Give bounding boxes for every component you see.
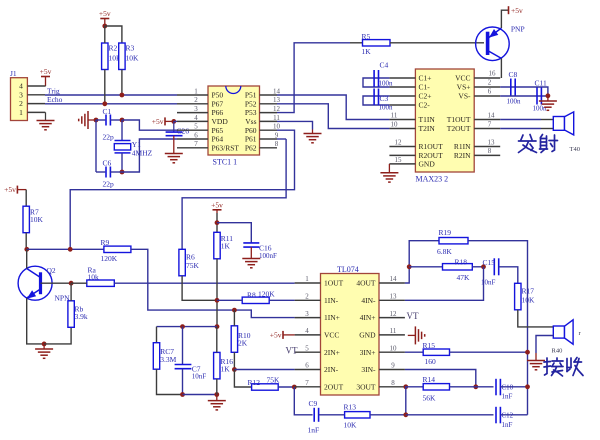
capacitor C3 (374, 89, 393, 112)
svg-text:P66: P66 (212, 108, 224, 117)
wire (278, 386, 294, 388)
resistor R8 (242, 289, 275, 303)
junction R15-vert (525, 350, 530, 355)
junction Q2-gnd (42, 342, 47, 347)
wire (25, 190, 27, 207)
wire (70, 130, 294, 249)
svg-text:47K: 47K (457, 273, 471, 282)
svg-text:12: 12 (390, 310, 398, 318)
svg-text:R17: R17 (522, 287, 535, 296)
svg-text:P60: P60 (245, 126, 257, 135)
capacitor C4 (374, 61, 393, 88)
svg-text:P67: P67 (212, 99, 224, 108)
svg-text:56K: 56K (423, 394, 437, 403)
wire (182, 369, 184, 395)
junction R3-Trig (120, 93, 125, 98)
wire (71, 282, 87, 284)
ground C16 (242, 247, 260, 268)
svg-text:10nF: 10nF (481, 279, 496, 287)
svg-text:R1OUT: R1OUT (419, 142, 444, 151)
svg-text:6: 6 (194, 131, 198, 139)
svg-text:C1+: C1+ (419, 74, 432, 83)
capacitor C15 (481, 258, 499, 287)
power +5v J1 (40, 67, 52, 86)
wire (499, 267, 518, 284)
wire (157, 369, 183, 394)
svg-text:P53: P53 (245, 108, 257, 117)
svg-text:TL074: TL074 (337, 265, 359, 274)
svg-text:P65: P65 (212, 126, 224, 135)
svg-text:10: 10 (390, 344, 398, 352)
wire (234, 370, 251, 388)
junction pin8-R14 (403, 384, 408, 389)
svg-text:+5v: +5v (152, 117, 164, 126)
svg-text:PNP: PNP (511, 25, 525, 34)
svg-text:R1IN: R1IN (454, 142, 471, 151)
svg-text:1nF: 1nF (502, 393, 513, 401)
svg-text:5: 5 (194, 123, 198, 131)
svg-text:6: 6 (305, 362, 309, 370)
svg-text:6.8K: 6.8K (437, 247, 452, 256)
svg-text:4: 4 (19, 82, 23, 91)
svg-text:100n: 100n (379, 104, 394, 112)
speaker T40 (553, 112, 580, 153)
wire (216, 213, 218, 232)
svg-text:Vss: Vss (245, 117, 256, 126)
capacitor C9 (308, 399, 320, 435)
wire (536, 336, 553, 354)
svg-text:1K: 1K (221, 365, 231, 374)
svg-text:R40: R40 (552, 348, 563, 355)
wire (27, 298, 44, 344)
wire (541, 119, 553, 121)
speaker R40 (552, 320, 582, 355)
wire (182, 327, 184, 365)
svg-text:3OUT: 3OUT (356, 382, 376, 391)
svg-text:11: 11 (273, 114, 280, 122)
wire (472, 266, 483, 268)
svg-text:7: 7 (194, 140, 198, 148)
wire (110, 119, 122, 121)
power +5v TL074 (270, 331, 295, 340)
svg-text:P50: P50 (212, 91, 224, 100)
svg-text:R18: R18 (455, 258, 468, 267)
ground J1 pin1 (37, 112, 55, 129)
resistor R14 (423, 375, 450, 403)
capacitor C8 (507, 70, 522, 106)
svg-text:C3: C3 (380, 94, 389, 103)
svg-text:C2-: C2- (419, 101, 431, 110)
wire (44, 328, 71, 344)
power +5v R11 (211, 200, 223, 213)
ground osc (79, 111, 96, 129)
resistor R5 (362, 32, 391, 56)
svg-text:120K: 120K (258, 289, 275, 298)
svg-text:R8: R8 (247, 290, 256, 299)
wire (234, 369, 294, 371)
wire (27, 248, 104, 250)
svg-text:10K: 10K (344, 421, 358, 430)
svg-text:8: 8 (391, 379, 395, 387)
wire (363, 78, 389, 87)
svg-text:VDD: VDD (212, 117, 229, 126)
wire (182, 276, 217, 301)
svg-text:r: r (579, 330, 582, 337)
junction R18-C15 (481, 264, 486, 269)
svg-text:C1-: C1- (419, 83, 431, 92)
junction R11-R8 (215, 298, 220, 303)
svg-text:P52: P52 (245, 99, 257, 108)
wire (157, 326, 218, 328)
svg-text:22p: 22p (103, 133, 115, 142)
svg-text:14: 14 (273, 87, 281, 95)
wire (500, 119, 541, 121)
svg-text:1: 1 (194, 87, 198, 95)
svg-text:120K: 120K (101, 254, 118, 263)
svg-text:GND: GND (359, 331, 376, 340)
junction R2R3 +5v (102, 24, 107, 29)
svg-text:Q2: Q2 (47, 266, 56, 275)
junction R12-2OUT (292, 385, 297, 390)
wire (350, 42, 363, 44)
wire (183, 394, 217, 396)
svg-text:9: 9 (391, 362, 395, 370)
svg-text:9: 9 (275, 131, 279, 139)
resistor R6 (179, 249, 200, 275)
wire (96, 119, 105, 121)
svg-text:C1: C1 (103, 107, 112, 116)
svg-text:3IN-: 3IN- (361, 365, 376, 374)
resistor R15 (423, 341, 450, 366)
wire (45, 103, 177, 105)
power +5v PNP (501, 6, 523, 28)
wire (269, 299, 294, 301)
capacitor C11 (533, 79, 548, 113)
ground VS (539, 96, 557, 111)
wire (450, 351, 528, 353)
transistor Q1 PNP (476, 25, 525, 61)
svg-text:75K: 75K (267, 376, 281, 385)
junction VS (546, 93, 551, 98)
svg-text:2OUT: 2OUT (324, 382, 344, 391)
svg-text:P51: P51 (245, 91, 257, 100)
svg-text:T1OUT: T1OUT (447, 115, 471, 124)
svg-text:2: 2 (19, 99, 23, 108)
label VT pin12 (407, 311, 419, 321)
svg-text:5: 5 (305, 344, 309, 352)
svg-text:1IN-: 1IN- (324, 296, 339, 305)
svg-text:STC1 1: STC1 1 (213, 158, 238, 167)
wire (104, 26, 106, 43)
wire (156, 327, 158, 343)
wire (500, 414, 527, 416)
svg-text:R9: R9 (101, 238, 110, 247)
wire (216, 259, 218, 327)
svg-text:C8: C8 (509, 70, 518, 79)
junction C1-gnd (94, 118, 99, 123)
power +5v R7 (4, 185, 26, 194)
wire (216, 379, 218, 395)
wire (96, 171, 105, 173)
wire (110, 171, 122, 173)
resistor R10 (231, 326, 251, 353)
wire (405, 370, 476, 387)
wire (114, 282, 294, 284)
connector J1 (10, 69, 45, 121)
wire (468, 241, 528, 415)
ground TL074 (408, 326, 425, 344)
svg-text:R12: R12 (248, 378, 261, 387)
power +5v VDD (152, 117, 174, 126)
svg-text:8: 8 (275, 140, 279, 148)
wire (277, 95, 389, 120)
svg-text:1: 1 (19, 108, 23, 117)
svg-text:11: 11 (390, 327, 397, 335)
svg-text:16: 16 (489, 70, 497, 78)
svg-text:100n: 100n (507, 98, 522, 106)
svg-text:C12: C12 (502, 412, 514, 420)
wire (518, 310, 554, 327)
svg-text:12: 12 (273, 105, 281, 113)
wire (131, 249, 235, 310)
svg-text:100n: 100n (379, 80, 394, 88)
wire (121, 70, 123, 96)
svg-text:R2IN: R2IN (454, 151, 471, 160)
svg-text:4MHZ: 4MHZ (132, 149, 153, 158)
capacitor C16 (243, 243, 277, 260)
resistor R9 (101, 238, 131, 263)
label Echo (47, 95, 63, 104)
svg-text:3: 3 (19, 90, 23, 99)
svg-text:+5v: +5v (270, 331, 282, 340)
junction Q2-base (69, 281, 74, 286)
svg-text:8: 8 (488, 147, 492, 155)
junction R18-R19 (407, 264, 412, 269)
svg-text:3.9k: 3.9k (75, 312, 88, 321)
svg-text:2: 2 (488, 79, 492, 87)
svg-text:1K: 1K (221, 242, 231, 251)
resistor Ra (87, 266, 115, 287)
label jie-shou (544, 358, 583, 377)
wire (277, 104, 389, 129)
svg-text:+5v: +5v (99, 9, 111, 18)
wire (541, 128, 553, 130)
junction Y1-C6 (120, 170, 125, 175)
wire (277, 43, 350, 113)
svg-text:2IN+: 2IN+ (324, 348, 340, 357)
junction R11-C16 (215, 220, 220, 225)
svg-text:160: 160 (425, 357, 437, 366)
svg-text:7: 7 (488, 120, 492, 128)
label fa-she (519, 135, 558, 153)
svg-text:C6: C6 (103, 159, 112, 168)
wire (182, 139, 286, 249)
resistor RC7 (153, 343, 176, 370)
capacitor C12 (496, 407, 514, 429)
svg-text:P61: P61 (245, 135, 257, 144)
wire (500, 128, 541, 130)
svg-text:Echo: Echo (47, 95, 63, 104)
svg-text:R13: R13 (344, 403, 357, 412)
svg-text:T40: T40 (570, 146, 580, 153)
junction P60-node (68, 247, 73, 252)
svg-text:13: 13 (273, 96, 281, 104)
svg-text:3: 3 (194, 105, 198, 113)
svg-text:C4: C4 (380, 61, 389, 70)
ground R16 (208, 395, 226, 410)
wire (25, 233, 27, 250)
svg-text:14: 14 (488, 111, 496, 119)
svg-text:GND: GND (419, 160, 436, 169)
wire (217, 223, 251, 243)
wire (121, 120, 123, 141)
svg-text:VS-: VS- (458, 92, 471, 101)
svg-text:12: 12 (395, 139, 403, 147)
svg-text:4IN-: 4IN- (361, 296, 376, 305)
resistor R17 (515, 283, 535, 310)
svg-text:10K: 10K (522, 296, 536, 305)
ground C26 (165, 136, 183, 163)
svg-text:R5: R5 (362, 32, 371, 41)
svg-text:10k: 10k (88, 273, 100, 282)
resistor R3 (119, 43, 139, 70)
svg-text:13: 13 (488, 138, 496, 146)
junction R13-C12 (403, 412, 408, 417)
power +5v R2R3 (99, 9, 111, 26)
wire (41, 282, 72, 284)
svg-text:1: 1 (305, 275, 309, 283)
wire (277, 138, 286, 140)
wire (405, 351, 423, 353)
wire (390, 42, 484, 44)
ground Vss (277, 121, 322, 142)
capacitor C26 (166, 121, 190, 135)
svg-text:7: 7 (305, 379, 309, 387)
svg-text:100nF: 100nF (259, 252, 277, 260)
svg-text:4IN+: 4IN+ (360, 313, 376, 322)
svg-text:C11: C11 (535, 79, 547, 88)
junction R11-RC7 (215, 324, 220, 329)
svg-text:6: 6 (488, 88, 492, 96)
wire (70, 283, 72, 301)
junction C1-Y1 (120, 118, 125, 123)
junction C10-vert (525, 384, 530, 389)
ground MAX232 (380, 164, 398, 182)
resistor R19 (437, 228, 468, 256)
svg-text:T2OUT: T2OUT (447, 124, 471, 133)
wire (105, 26, 122, 43)
svg-text:1K: 1K (362, 47, 372, 56)
svg-text:3: 3 (305, 310, 309, 318)
resistor R2 (102, 43, 122, 70)
wire (500, 58, 502, 78)
svg-text:2K: 2K (238, 339, 248, 348)
wire (409, 266, 442, 268)
capacitor C7 (175, 365, 207, 381)
wire (217, 299, 242, 301)
resistor Rb (68, 301, 88, 328)
wire (216, 327, 218, 353)
resistor R12 (248, 376, 281, 391)
svg-text:P62: P62 (245, 143, 257, 152)
svg-text:R15: R15 (423, 341, 436, 350)
wire (405, 387, 407, 415)
svg-text:4OUT: 4OUT (356, 279, 376, 288)
svg-text:+5v: +5v (511, 6, 523, 15)
wire (405, 386, 423, 388)
svg-text:22p: 22p (103, 180, 115, 189)
svg-text:2IN-: 2IN- (324, 365, 339, 374)
junction R10-bot (232, 367, 237, 372)
svg-text:C10: C10 (502, 384, 514, 392)
svg-text:VCC: VCC (455, 74, 470, 83)
svg-text:4: 4 (305, 327, 309, 335)
svg-text:10K: 10K (126, 54, 140, 63)
wire (500, 386, 527, 388)
svg-text:1nF: 1nF (308, 426, 320, 435)
wire (500, 95, 548, 97)
resistor R18 (443, 258, 473, 283)
ground Q2 (35, 344, 53, 358)
svg-text:4: 4 (194, 114, 198, 122)
svg-text:R14: R14 (423, 375, 436, 384)
svg-text:P64: P64 (212, 135, 224, 144)
capacitor C10 (496, 379, 514, 401)
wire (294, 387, 312, 415)
junction VDD (171, 119, 176, 124)
wire (45, 94, 177, 96)
svg-text:J1: J1 (10, 69, 17, 78)
wire (363, 96, 389, 105)
junction R7-R9 (24, 247, 29, 252)
svg-text:C2+: C2+ (419, 92, 432, 101)
svg-text:3.3M: 3.3M (160, 355, 176, 364)
capacitor C6 (103, 159, 115, 189)
resistor R11 (214, 232, 233, 258)
svg-text:C9: C9 (309, 399, 318, 408)
svg-text:11: 11 (391, 111, 398, 119)
svg-text:1IN+: 1IN+ (324, 313, 340, 322)
svg-text:14: 14 (390, 275, 398, 283)
svg-text:Trig: Trig (47, 86, 60, 95)
wire (233, 310, 235, 326)
svg-text:2: 2 (305, 293, 309, 301)
wire (122, 139, 177, 172)
wire (406, 414, 494, 416)
svg-text:+5v: +5v (40, 67, 52, 76)
op-amp U1 TL074 (295, 265, 405, 395)
svg-text:10: 10 (273, 123, 281, 131)
wire (405, 267, 484, 301)
svg-text:10nF: 10nF (192, 373, 207, 381)
svg-text:100n: 100n (533, 105, 548, 113)
svg-text:13: 13 (390, 293, 398, 301)
junction pin9-R14 (473, 384, 478, 389)
svg-text:P63/RST: P63/RST (212, 143, 240, 152)
svg-text:15: 15 (395, 156, 403, 164)
junction R2-Echo (102, 101, 107, 106)
wire (26, 249, 28, 268)
svg-text:+5v: +5v (211, 200, 223, 209)
wire (319, 414, 345, 416)
svg-text:1nF: 1nF (502, 421, 513, 429)
svg-text:VT: VT (407, 311, 419, 321)
wire (450, 386, 494, 388)
svg-text:75K: 75K (186, 261, 200, 270)
svg-text:3IN+: 3IN+ (360, 348, 376, 357)
svg-text:2: 2 (194, 96, 198, 104)
wire (405, 241, 439, 283)
